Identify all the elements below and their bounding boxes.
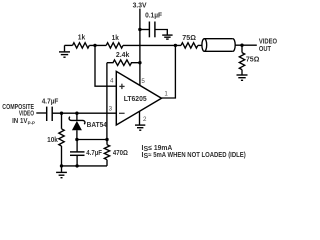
- svg-text:LT6205: LT6205: [124, 96, 147, 103]
- node input/10k: [60, 112, 63, 115]
- svg-text:OUT: OUT: [259, 46, 272, 53]
- wire: [89, 44, 106, 46]
- svg-text:3: 3: [109, 105, 113, 112]
- wire rail left: [65, 44, 73, 46]
- svg-text:VIDEO: VIDEO: [19, 111, 34, 118]
- wire bottom rail: [62, 165, 108, 167]
- note supply current: [142, 145, 246, 160]
- node output feedback: [174, 44, 177, 47]
- node cap/rail: [75, 164, 78, 167]
- wire pin2: [139, 111, 141, 124]
- svg-text:10k: 10k: [47, 137, 58, 144]
- coax cable: [198, 39, 235, 52]
- svg-text:≈ 5mA WHEN NOT LOADED (IDLE): ≈ 5mA WHEN NOT LOADED (IDLE): [148, 152, 245, 159]
- node supply/bypass junction: [138, 28, 141, 31]
- svg-text:75Ω: 75Ω: [182, 35, 196, 42]
- svg-text:2: 2: [143, 116, 147, 123]
- node supply/2.4k/pin5: [138, 61, 141, 64]
- ground bias divider: [59, 45, 70, 57]
- ground pin2: [135, 125, 145, 130]
- capacitor 4.7uF input: [42, 98, 59, 121]
- resistor 470 ohm: [104, 140, 128, 166]
- capacitor 0.1uF: [145, 13, 163, 38]
- resistor 75 ohm series: [181, 35, 198, 48]
- svg-text:1: 1: [164, 91, 168, 98]
- svg-text:4: 4: [110, 78, 114, 85]
- svg-text:VIDEO: VIDEO: [259, 39, 278, 46]
- node termination: [240, 44, 243, 47]
- svg-text:1k: 1k: [78, 35, 86, 42]
- node bias midpoint: [93, 44, 96, 47]
- node input/diode: [75, 112, 78, 115]
- resistor 1k (right): [106, 35, 123, 48]
- resistor 75 ohm termination: [239, 45, 259, 69]
- wire supply vertical: [139, 9, 141, 63]
- wire output pin1: [162, 45, 176, 98]
- op-amp U1 LT6205: [116, 71, 161, 125]
- svg-text:4.7µF: 4.7µF: [42, 98, 59, 105]
- svg-text:2.4k: 2.4k: [116, 52, 130, 59]
- resistor 2.4k: [107, 52, 140, 66]
- diode D1 BAT54: [69, 113, 107, 139]
- svg-text:5: 5: [141, 78, 145, 85]
- resistor 1k (left): [73, 35, 90, 48]
- svg-text:1k: 1k: [112, 35, 119, 42]
- svg-text:≤ 19mA: ≤ 19mA: [148, 145, 172, 152]
- wire gain rail: [77, 139, 107, 141]
- wire input: [36, 112, 46, 114]
- ground bypass: [162, 35, 172, 39]
- svg-text:0.1µF: 0.1µF: [145, 13, 163, 20]
- node 2.4k/470: [105, 138, 108, 141]
- wire bias to +input: [95, 45, 116, 86]
- resistor 10k: [47, 113, 64, 166]
- wire coax to out: [235, 44, 257, 46]
- svg-text:470Ω: 470Ω: [113, 150, 128, 157]
- wire bypass to ground: [155, 30, 167, 35]
- ground main: [56, 166, 67, 178]
- svg-text:3.3V: 3.3V: [133, 2, 147, 9]
- node 10k/ground: [60, 164, 63, 167]
- ground termination: [237, 70, 248, 81]
- svg-text:BAT54: BAT54: [87, 122, 107, 129]
- node diode/cap: [75, 138, 78, 141]
- wire rail to output node: [123, 44, 181, 46]
- wire pin5: [139, 63, 141, 86]
- svg-text:IN 1V: IN 1V: [12, 118, 28, 125]
- svg-text:4.7µF: 4.7µF: [86, 150, 102, 157]
- wire input to pin3: [53, 112, 117, 114]
- wire bypass branch: [140, 29, 149, 31]
- wire feedback vertical: [106, 63, 108, 140]
- svg-text:75Ω: 75Ω: [246, 57, 260, 64]
- svg-text:P-P: P-P: [28, 120, 35, 125]
- label composite video in: [2, 104, 35, 126]
- capacitor 4.7uF gain: [70, 140, 103, 166]
